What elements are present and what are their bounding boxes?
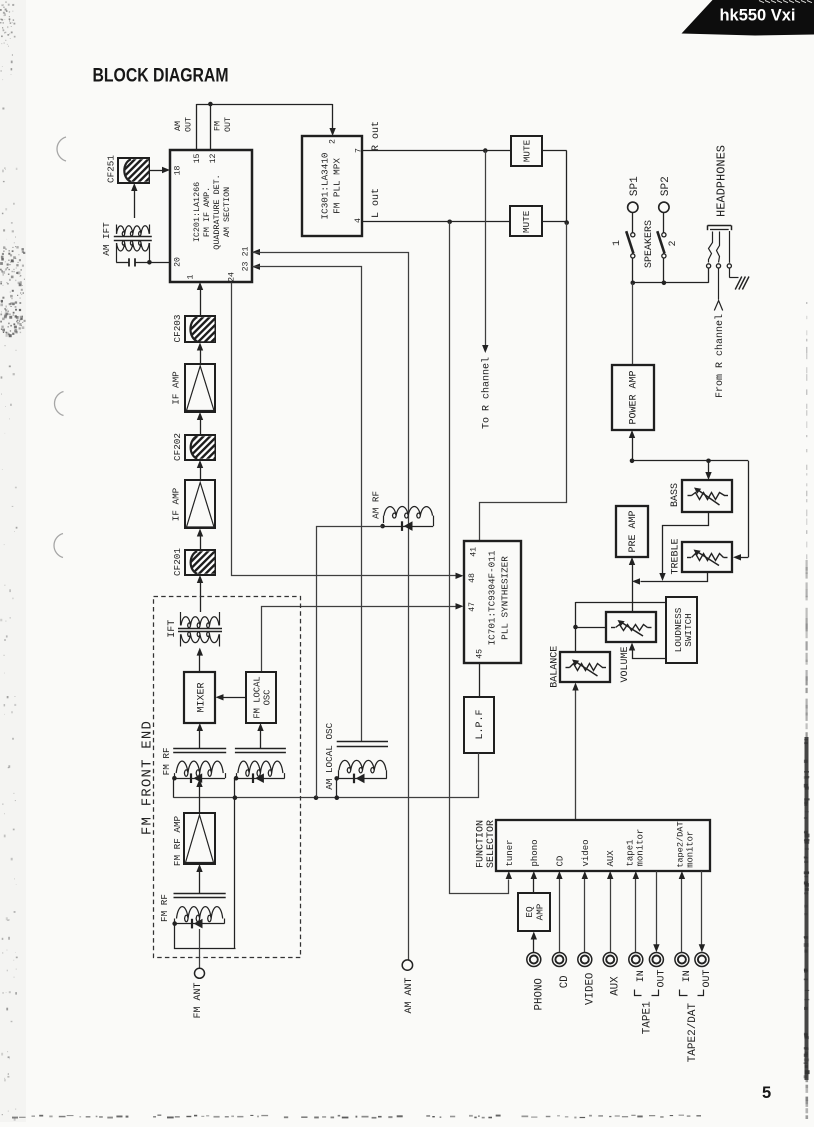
jack CD x559 (552, 953, 566, 967)
jack PHONO x533 (527, 953, 541, 967)
BALANCE control (560, 652, 610, 682)
svg-text:48: 48 (468, 573, 477, 583)
svg-text:AMP: AMP (534, 903, 545, 920)
wire tank1 to MIXER (199, 731, 201, 748)
wire IFAMP2 to CF202 (197, 460, 203, 468)
svg-text:MUTE: MUTE (521, 210, 532, 233)
node rail-AMOSC (335, 795, 340, 800)
wire left contact to speaker bus (708, 268, 710, 283)
node MUTE join (564, 220, 569, 225)
svg-text:2: 2 (668, 240, 679, 246)
svg-text:IC301:LA3410: IC301:LA3410 (320, 153, 331, 220)
svg-text:VIDEO: VIDEO (584, 973, 596, 1005)
svg-text:tape1: tape1 (626, 839, 636, 866)
wire MUTE drive from IC701 pin41 (480, 223, 567, 542)
svg-text:OUT: OUT (184, 117, 193, 132)
node R branch (483, 148, 488, 153)
svg-text:MIXER: MIXER (196, 682, 207, 712)
node SP1 out (631, 281, 636, 286)
LOUDNESS SWITCH (666, 597, 697, 663)
BASS control (682, 480, 732, 512)
svg-text:SWITCH: SWITCH (683, 613, 694, 646)
node preamp out (630, 459, 635, 464)
svg-text:15: 15 (193, 154, 202, 164)
svg-text:OUT: OUT (702, 969, 713, 987)
svg-text:OSC: OSC (262, 690, 272, 706)
ceramic filter CF201 (185, 550, 215, 575)
svg-text:AUX: AUX (610, 976, 622, 996)
svg-text:video: video (581, 839, 591, 866)
AM IFT secondary (117, 241, 150, 251)
FM RF tank 1 (173, 748, 226, 750)
svg-text:HEADPHONES: HEADPHONES (715, 145, 729, 217)
svg-text:1: 1 (612, 240, 623, 246)
FM RF tank 3 (174, 893, 226, 895)
wire BASS feedback (663, 512, 709, 574)
node L branch (447, 220, 452, 225)
IF AMP 1 (185, 364, 215, 412)
node rail-AMRF (314, 795, 319, 800)
wire jack to selector (681, 879, 683, 952)
VOLUME control (606, 612, 656, 642)
svg-text:FM FRONT END: FM FRONT END (139, 720, 155, 835)
wire FM RF AMP out to tank1 (199, 787, 201, 814)
IF AMP 2 (185, 480, 215, 528)
wire IFT to CF201 (197, 575, 203, 583)
speaker terminal SP1 (628, 202, 638, 212)
ground chassis (729, 268, 731, 278)
jack contact middle (717, 232, 720, 263)
node FM OUT junction (208, 102, 213, 107)
svg-text:OUT: OUT (657, 969, 668, 987)
svg-text:L out: L out (371, 188, 382, 218)
svg-text:45: 45 (475, 649, 484, 659)
wire IC201 pin21 to AM ANT (252, 249, 260, 255)
wire tank2/tank3 tuning line (234, 778, 236, 949)
jack IN x681 (675, 953, 689, 967)
wire FUNCTION SELECTOR to BALANCE (575, 690, 577, 820)
FM LOCAL OSC block (246, 672, 276, 723)
AM IFT transformer (117, 226, 150, 236)
EQ AMP block (518, 893, 550, 931)
svg-text:hk550 Vxi: hk550 Vxi (720, 7, 796, 25)
label TAPE1 bracket (635, 990, 642, 996)
svg-text:4: 4 (354, 218, 363, 223)
svg-text:phono: phono (530, 839, 540, 866)
wire jack to selector (635, 879, 637, 952)
svg-text:PLL SYNTHESIZER: PLL SYNTHESIZER (500, 556, 511, 640)
wire EQ AMP to selector (533, 879, 535, 893)
PRE AMP (616, 506, 648, 557)
wire into IC301 pin2 (332, 104, 334, 129)
wire AM IFT to CF251 (134, 191, 136, 219)
wire tank3 to FM RF AMP (199, 872, 201, 894)
jack OUT x701 (695, 953, 709, 967)
svg-text:CD: CD (559, 975, 571, 988)
svg-text:EQ: EQ (524, 906, 535, 918)
svg-text:2: 2 (328, 139, 337, 144)
svg-text:BASS: BASS (670, 483, 681, 507)
svg-text:POWER AMP: POWER AMP (629, 370, 640, 424)
AM LOCAL OSC tank (337, 741, 388, 743)
wire MIXER to IFT (199, 655, 201, 672)
punch hole arcs (57, 137, 66, 161)
wire selector to jack out (656, 871, 658, 945)
svg-text:AM IFT: AM IFT (101, 222, 112, 256)
svg-text:AUX: AUX (606, 850, 616, 867)
FM RF tank 2 (local osc) (235, 748, 286, 750)
svg-text:12: 12 (209, 154, 218, 164)
svg-text:MUTE: MUTE (522, 139, 533, 162)
svg-text:tuner: tuner (505, 839, 515, 866)
svg-text:monitor: monitor (685, 831, 695, 868)
MUTE block R (511, 136, 542, 166)
svg-text:TREBLE: TREBLE (670, 538, 681, 574)
wire jack to selector (559, 879, 561, 952)
wire L out to FUNCTION SELECTOR tuner (450, 222, 509, 894)
svg-text:AM ANT: AM ANT (404, 977, 415, 1013)
svg-text:L.P.F: L.P.F (475, 709, 486, 739)
wire IC201 pin23 to AM LOCAL OSC (252, 264, 260, 270)
svg-text:BLOCK DIAGRAM: BLOCK DIAGRAM (93, 65, 229, 87)
svg-text:CF251: CF251 (106, 155, 117, 183)
svg-text:21: 21 (241, 247, 250, 257)
wire FM LOCAL OSC to MIXER (224, 697, 246, 699)
svg-text:QUADRATURE DET.: QUADRATURE DET. (212, 174, 222, 249)
IC701 TC9304F-011 PLL SYNTHESIZER (464, 541, 521, 663)
svg-text:20: 20 (173, 257, 182, 267)
svg-text:IN: IN (636, 970, 647, 982)
svg-text:IN: IN (682, 970, 693, 982)
svg-text:AM SECTION: AM SECTION (222, 187, 232, 237)
svg-text:FM RF AMP: FM RF AMP (172, 815, 183, 866)
svg-text:FUNCTION: FUNCTION (476, 820, 487, 868)
svg-text:From R channel: From R channel (714, 314, 726, 398)
IFT transformer (181, 617, 219, 628)
svg-text:24: 24 (227, 272, 236, 282)
wire jack to selector (610, 879, 612, 952)
svg-text:SPEAKERS: SPEAKERS (644, 220, 655, 268)
svg-text:41: 41 (470, 547, 479, 557)
wire CF201 to IFAMP2 (197, 529, 203, 537)
FM RF AMP block (184, 813, 215, 864)
jack OUT x656 (649, 953, 663, 967)
wire LPF tuning voltage rail (174, 753, 479, 798)
svg-text:FM ANT: FM ANT (193, 982, 204, 1018)
svg-text:5: 5 (762, 1084, 771, 1102)
jack AUX x610 (603, 953, 617, 967)
scan artifact bottom edge (12, 1115, 701, 1119)
svg-text:IC701:TC9304F-011: IC701:TC9304F-011 (487, 550, 498, 645)
AM RF tuned circuit (384, 507, 433, 519)
jack contact right (729, 231, 731, 263)
svg-text:IC201:LA1266: IC201:LA1266 (192, 182, 202, 242)
wire speaker bus (633, 282, 709, 284)
L.P.F block (464, 697, 494, 753)
svg-text:PRE AMP: PRE AMP (628, 510, 639, 552)
wire top horizontal to IC301 (196, 104, 332, 106)
svg-text:FM: FM (213, 121, 222, 131)
wire TREBLE feedback (641, 573, 708, 582)
node balance-volume (573, 625, 578, 630)
svg-text:23: 23 (241, 262, 250, 272)
wire chain into IC201 pin1 (197, 282, 203, 290)
ceramic filter CF251 (118, 158, 149, 183)
page banner hk550 Vxi (682, 0, 814, 36)
AM ANT terminal (402, 960, 412, 970)
scan artifact right edge band (804, 302, 810, 1119)
svg-text:47: 47 (468, 602, 477, 612)
headphone jack HEADPHONES (708, 225, 732, 227)
wire AM LOCAL OSC to rail (336, 778, 338, 797)
label TAPE2/DAT bracket (680, 990, 688, 996)
svg-text:CF203: CF203 (172, 315, 183, 343)
MUTE block L (510, 206, 542, 236)
TREBLE control (682, 542, 732, 572)
svg-text:CF201: CF201 (172, 548, 183, 576)
jack VIDEO x584 (578, 953, 592, 967)
node SP2 out (662, 281, 667, 286)
speaker switch 2 (663, 213, 665, 233)
IC301 LA3410 FM PLL MPX (302, 136, 362, 236)
wire L out to MUTE (363, 221, 510, 223)
wire R out to MUTE (363, 150, 511, 152)
wire tank2 to FM LOCAL OSC (260, 731, 262, 748)
svg-text:tape2/DAT: tape2/DAT (675, 821, 685, 867)
svg-text:IFT: IFT (167, 620, 178, 638)
svg-text:TAPE2/DAT: TAPE2/DAT (687, 1003, 699, 1063)
IC201 LA1266 FM IF AMP / QUADRATURE DET / AM SECTION (170, 150, 252, 282)
svg-text:FM LOCAL: FM LOCAL (252, 676, 262, 718)
svg-text:SELECTOR: SELECTOR (486, 820, 497, 868)
svg-text:CF202: CF202 (172, 433, 183, 461)
svg-text:1: 1 (186, 274, 195, 279)
svg-text:AM RF: AM RF (370, 491, 381, 519)
jack IN x635 (629, 953, 643, 967)
wire IC201 pin24 to IC701 pin48 (232, 283, 456, 576)
wire PHONO jack to EQ AMP (533, 940, 535, 953)
svg-text:FM RF: FM RF (161, 747, 172, 775)
svg-text:monitor: monitor (636, 829, 646, 867)
wire IFAMP to CF203 (197, 343, 203, 351)
wire PRE AMP to POWER AMP (629, 430, 635, 438)
FM FRONT END dashed enclosure (154, 597, 301, 958)
svg-text:IF AMP: IF AMP (171, 371, 182, 405)
scan artifact left margin (0, 2, 26, 1121)
svg-text:FM IF AMP.: FM IF AMP. (202, 187, 212, 237)
wire CF202 to IFAMP (197, 412, 203, 420)
MIXER block (184, 672, 215, 723)
svg-text:FM RF: FM RF (159, 894, 170, 922)
node rail-FMtank (233, 795, 238, 800)
wire CF251 to IC201 pin18 (150, 170, 164, 172)
wire IC701 pin45 to LPF (479, 663, 481, 698)
svg-text:7: 7 (354, 148, 363, 153)
wire selector to jack out (701, 871, 703, 945)
FM ANT terminal (199, 929, 201, 968)
POWER AMP (612, 365, 654, 430)
wire From R channel into jack (718, 268, 720, 300)
ceramic filter CF202 (185, 435, 215, 460)
AM IFT cap + wire to pin20 (116, 243, 118, 262)
wire tone branch (632, 460, 748, 462)
wire To R channel (485, 151, 487, 346)
svg-text:To R channel: To R channel (480, 357, 492, 429)
wire IC201 pin15 AM OUT (196, 104, 198, 150)
speaker terminal SP2 (659, 202, 669, 212)
svg-text:18: 18 (173, 166, 182, 176)
svg-text:AM LOCAL OSC: AM LOCAL OSC (324, 722, 335, 789)
wire VOLUME to PRE AMP (629, 557, 635, 565)
FUNCTION SELECTOR block (496, 820, 710, 871)
wire loudness tap (576, 602, 667, 604)
svg-text:CD: CD (556, 856, 566, 867)
wire IC201 pin12 FM OUT (210, 104, 212, 150)
wire tank3 tuning U (175, 924, 236, 949)
speaker switch 1 (632, 213, 634, 233)
wire LOUDNESS to VOLUME (633, 651, 667, 659)
wire AM RF tuning (317, 527, 383, 798)
svg-text:IF AMP: IF AMP (171, 487, 182, 521)
svg-text:VOLUME: VOLUME (620, 646, 631, 682)
svg-text:OUT: OUT (224, 117, 233, 132)
jack contact left (709, 232, 713, 263)
svg-text:TAPE1: TAPE1 (642, 1001, 654, 1034)
svg-text:PHONO: PHONO (533, 978, 545, 1010)
svg-text:FM PLL MPX: FM PLL MPX (332, 158, 343, 214)
wire MUTE outputs join (542, 150, 567, 152)
wire tank1 to rail (173, 778, 175, 798)
svg-text:SP2: SP2 (660, 176, 672, 196)
wire FM LOCAL OSC to IC701 pin47 (262, 607, 456, 673)
svg-text:AM: AM (174, 121, 183, 131)
svg-text:SP1: SP1 (629, 176, 641, 196)
svg-text:R out: R out (371, 121, 382, 151)
ceramic filter CF203 (185, 316, 215, 342)
wire jack to selector (584, 879, 586, 952)
wire speaker bus to POWER AMP (632, 283, 634, 365)
svg-text:BALANCE: BALANCE (549, 646, 560, 688)
